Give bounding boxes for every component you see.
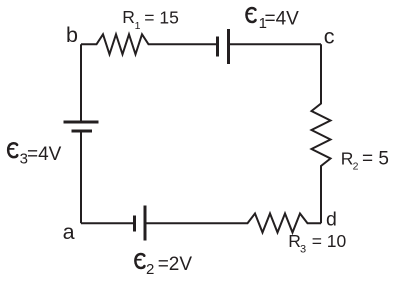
svg-text:=4V: =4V <box>27 144 62 165</box>
svg-text:R: R <box>341 148 354 168</box>
svg-text:1: 1 <box>135 20 141 32</box>
svg-text:= 15: = 15 <box>144 7 179 27</box>
svg-text:3: 3 <box>300 244 306 256</box>
svg-text:b: b <box>66 23 78 47</box>
svg-text:=2V: =2V <box>158 254 193 275</box>
svg-text:R: R <box>288 231 301 251</box>
svg-text:2: 2 <box>353 161 359 173</box>
svg-text:= 10: = 10 <box>312 231 347 251</box>
svg-text:d: d <box>326 209 337 231</box>
svg-text:R: R <box>122 7 135 27</box>
svg-text:= 5: = 5 <box>362 148 389 169</box>
svg-text:a: a <box>63 220 75 244</box>
svg-text:c: c <box>324 25 335 49</box>
svg-text:=4V: =4V <box>265 8 300 29</box>
svg-text:2: 2 <box>146 261 154 278</box>
